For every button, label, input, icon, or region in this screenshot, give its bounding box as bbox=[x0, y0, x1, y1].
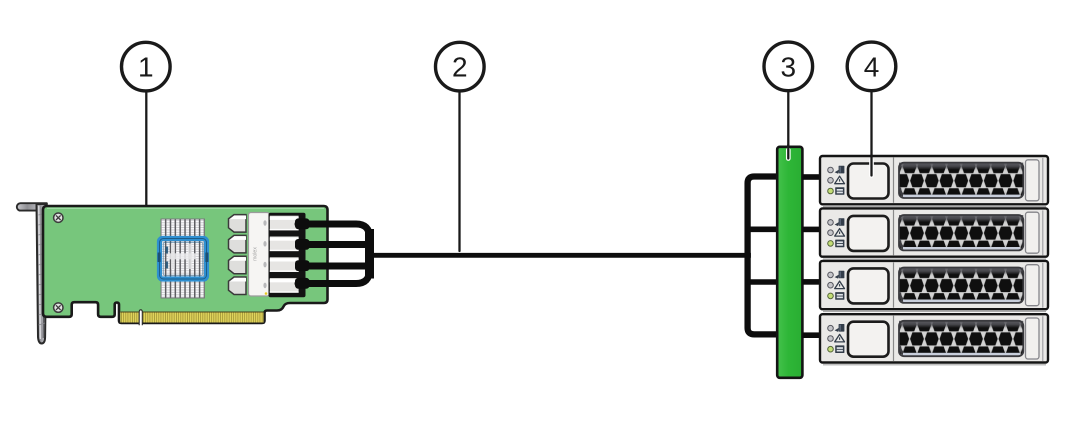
main trunk cable bbox=[370, 253, 751, 258]
cable boot 2 bbox=[295, 239, 310, 250]
svg-text:1: 1 bbox=[138, 52, 154, 83]
mini-SAS plug head 3 bbox=[229, 256, 247, 274]
drive tray 1 bbox=[820, 156, 1048, 207]
callout line 1 bbox=[144, 92, 149, 226]
mini-SAS connector body 1 bbox=[270, 216, 299, 231]
heatsink bbox=[161, 219, 205, 298]
callout line 4 bbox=[869, 92, 874, 176]
backplane green bar bbox=[777, 147, 802, 378]
cable branch 1 from connector bbox=[298, 224, 370, 253]
edge connector key notch bbox=[139, 310, 142, 325]
callout line 2 bbox=[457, 92, 462, 251]
callout line 3 tip over backplane bbox=[786, 145, 791, 159]
screw bottom bbox=[54, 303, 63, 312]
callout line 4 tip over button bbox=[869, 155, 874, 176]
mini-SAS connector block housing (molex strip) bbox=[249, 213, 270, 297]
drive stub 4 bbox=[803, 332, 821, 338]
drive tray 3 bbox=[820, 261, 1048, 312]
drive tray 4 bbox=[820, 314, 1048, 365]
svg-text:2: 2 bbox=[452, 52, 468, 83]
heatsink clip (blue) bbox=[158, 239, 209, 280]
PCIe gold edge connector long segment bbox=[142, 312, 264, 323]
cable branch 4 from connector bbox=[298, 257, 370, 284]
mini-SAS connector body 2 bbox=[270, 237, 299, 252]
callout line 3 bbox=[786, 92, 791, 159]
callout circle 2 bbox=[436, 42, 485, 91]
callout circle 1 bbox=[122, 42, 171, 91]
cable branch 2 from connector bbox=[298, 241, 366, 248]
mini-SAS plug head 1 bbox=[229, 215, 247, 233]
mini-SAS connector body 4 bbox=[270, 278, 299, 293]
cable boot 3 bbox=[295, 260, 310, 271]
screw top bbox=[54, 213, 63, 222]
PCIe bracket bbox=[17, 203, 47, 343]
splitter branch 2 bbox=[748, 227, 776, 233]
drive stub 1 bbox=[803, 174, 821, 180]
PCIe gold edge connector short segment bbox=[120, 312, 139, 323]
mini-SAS plug head 2 bbox=[229, 235, 247, 253]
cable collector bar bbox=[365, 229, 374, 279]
splitter branch 3 bbox=[748, 279, 776, 285]
cable branch 3 from connector bbox=[298, 263, 366, 270]
drive stub 2 bbox=[803, 227, 821, 233]
svg-text:molex: molex bbox=[253, 247, 259, 261]
mini-SAS plug head 4 bbox=[229, 277, 247, 295]
drive stub 3 bbox=[803, 279, 821, 285]
svg-text:3: 3 bbox=[781, 52, 797, 83]
cable boot 4 bbox=[295, 278, 310, 289]
callout circle 3 bbox=[764, 42, 813, 91]
HBA card PCB bbox=[43, 206, 328, 323]
mini-SAS connector body 3 bbox=[270, 257, 299, 272]
callout circle 4 bbox=[847, 42, 896, 91]
PCB top edge highlight bbox=[47, 207, 324, 209]
cable boot 1 bbox=[295, 218, 310, 229]
splitter trunk and outer branches bbox=[748, 177, 776, 335]
drive tray 2 bbox=[820, 208, 1048, 259]
mini-SAS connector body block bbox=[269, 213, 306, 297]
svg-text:4: 4 bbox=[864, 52, 880, 83]
